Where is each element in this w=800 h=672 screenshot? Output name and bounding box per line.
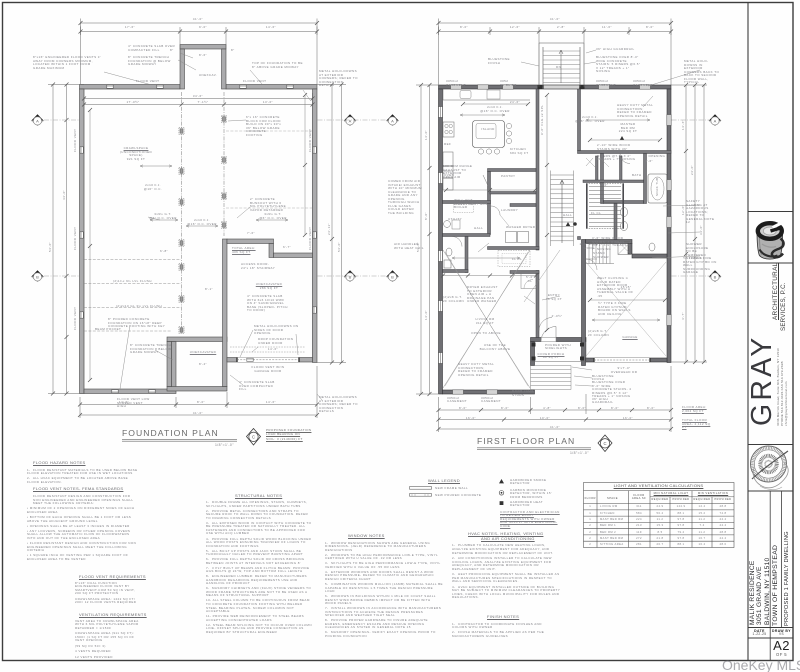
grid bubbles right xyxy=(709,114,721,126)
right dims xyxy=(317,85,346,363)
garage overhead door xyxy=(594,358,650,362)
outer walls: gray concrete bands xyxy=(80,45,318,394)
garage cross xyxy=(586,262,666,356)
foundation plan annotations xyxy=(168,18,228,22)
title block left border xyxy=(747,3,749,661)
inner face lines xyxy=(84,89,313,389)
living room cross brace xyxy=(443,250,530,388)
second living-room X offset xyxy=(445,252,528,386)
closet under stair xyxy=(521,272,536,289)
title underline xyxy=(122,439,237,441)
GRAY firm name (rotated) xyxy=(748,335,777,426)
bathroom bottom-left xyxy=(446,248,452,256)
garage door opening in bottom wall xyxy=(237,358,299,363)
interior partitions xyxy=(443,89,672,338)
title underline xyxy=(477,448,591,450)
flood vents in walls xyxy=(107,85,113,88)
left dims xyxy=(416,85,438,394)
stairwell open hatch xyxy=(586,184,624,229)
pier line right xyxy=(223,92,225,236)
range + left counters xyxy=(443,122,454,137)
first floor plan annotations xyxy=(525,18,585,22)
cover porch xyxy=(531,342,587,362)
left dims xyxy=(48,85,84,394)
leader lines xyxy=(104,53,322,400)
wall legend symbols xyxy=(410,487,432,497)
bottom dims xyxy=(80,366,317,418)
central stairs up xyxy=(551,171,574,247)
interior dim strings xyxy=(446,95,665,330)
right dims xyxy=(671,85,707,362)
exterior walls xyxy=(439,85,672,394)
dimension lines top xyxy=(439,19,672,86)
entry arcs xyxy=(539,318,552,331)
detector legend symbols xyxy=(499,479,504,483)
bath fixtures: double sinks + tub xyxy=(620,207,627,216)
laundry washer dryer xyxy=(506,232,517,243)
top stair bump xyxy=(539,43,584,87)
foundation plan title xyxy=(122,428,242,438)
title block dividers xyxy=(748,212,793,639)
bottom dims xyxy=(439,366,672,432)
small arrows near beam labels xyxy=(140,165,288,227)
front door opening xyxy=(541,338,556,342)
grid bubbles xyxy=(31,114,43,126)
master bed detector xyxy=(620,136,624,140)
island xyxy=(473,121,505,148)
hall detector symbols xyxy=(566,222,570,226)
pier line left xyxy=(181,92,183,334)
beam arrows xyxy=(452,114,660,321)
beam dashed lines in crawlspace xyxy=(84,260,181,332)
interior vertical dim at right section xyxy=(304,95,306,235)
basement stairs xyxy=(586,243,614,264)
project info (rotated) xyxy=(749,560,757,625)
utility fixtures xyxy=(444,221,451,228)
sliding glass door at stair landing xyxy=(544,85,580,89)
windows on exterior walls xyxy=(451,85,462,89)
interior top dims xyxy=(84,99,313,105)
kitchen counter along top xyxy=(443,89,530,100)
section marker C xyxy=(247,429,261,446)
closet partitions below master xyxy=(583,156,644,183)
first floor plan title xyxy=(477,436,607,446)
leader lines xyxy=(478,50,700,386)
powder/shower xyxy=(618,242,631,255)
firm logo xyxy=(757,222,785,260)
watermark xyxy=(722,657,800,672)
drop foundation dashed under door xyxy=(230,347,305,352)
dimension lines: top xyxy=(81,19,318,85)
